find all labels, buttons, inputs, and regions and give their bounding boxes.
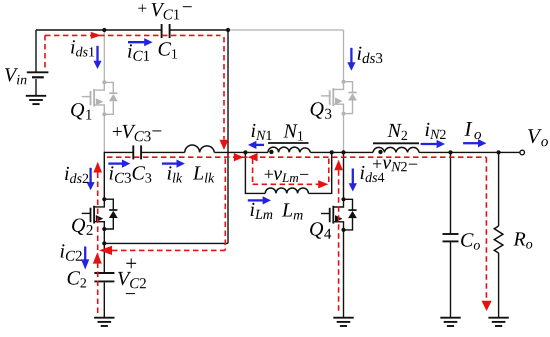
wire gray Q1 drain lead	[103, 30, 105, 82]
wire Q4 source to ground	[343, 230, 345, 318]
red dashed current path: Q4 column	[338, 170, 340, 311]
red dashed current path: Vin loop vertical	[44, 35, 46, 67]
red dashed current path: main row	[107, 156, 486, 158]
current arrow iN2	[421, 143, 437, 145]
label Llk	[193, 166, 215, 182]
label +vLm-	[265, 170, 273, 178]
current arrow ids4	[352, 169, 354, 184]
current arrow iLm	[248, 199, 263, 201]
capacitor C3	[133, 145, 141, 159]
inductor Lm branch	[245, 152, 265, 193]
red dashed current path: top horizontal	[45, 34, 221, 36]
transistor Q2	[82, 197, 118, 231]
label ilk	[168, 166, 183, 182]
label N1	[283, 124, 303, 140]
transistor Q3	[321, 80, 357, 116]
label Vin	[5, 68, 27, 84]
capacitor C1	[162, 24, 170, 38]
label N2	[387, 124, 407, 140]
node B (top junction C1 right)	[226, 28, 230, 32]
wire gray Q1 source lead	[103, 113, 105, 152]
red dashed current path: C1 down	[223, 37, 225, 140]
capacitor C2	[94, 273, 114, 281]
label +VC1-	[138, 4, 146, 12]
current arrow Io	[463, 142, 478, 144]
current arrow iC2	[84, 247, 86, 260]
wire Q2 source to C2	[103, 229, 105, 272]
ground (Q4)	[333, 318, 353, 326]
wire Vin top lead	[35, 30, 37, 72]
wire C1 branch down and across to Q2 source	[104, 30, 228, 243]
winding N1	[268, 147, 310, 152]
transistor Q1	[82, 80, 118, 116]
node Co top junction	[448, 150, 452, 154]
label Vo	[528, 129, 548, 146]
current arrow iC3	[108, 162, 122, 164]
red dashed current path: to Q2 source horizontal	[112, 249, 225, 251]
label Co	[461, 233, 480, 249]
label iLm	[251, 203, 273, 219]
wire Co branch	[450, 152, 452, 317]
current arrow ilk	[162, 162, 177, 164]
winding N1 core bar	[268, 142, 309, 144]
wire Q4 drain from junction	[343, 152, 345, 199]
winding N2 core bar	[373, 142, 419, 144]
node Q2 source wire junction	[102, 241, 106, 245]
label C2	[68, 271, 87, 287]
red arrow right into junction	[234, 153, 244, 161]
red arrow right (inner loop)	[318, 180, 328, 188]
red dashed current path: vLm inner loop	[253, 159, 329, 185]
label Q3	[311, 102, 332, 119]
label +vN2-	[373, 160, 381, 168]
label +VC3-	[113, 127, 122, 136]
capacitor Co	[443, 234, 459, 241]
current arrow ids1	[96, 46, 98, 62]
wire C2 to ground	[103, 282, 105, 317]
node Q4 top junction	[341, 150, 345, 154]
red dashed current path: left column	[97, 164, 99, 315]
current arrow ids2	[89, 168, 91, 183]
terminal Vo open circle	[520, 150, 525, 155]
current arrow iC1	[128, 41, 145, 43]
current arrow ids3	[350, 48, 352, 63]
red arrow up (left column)	[93, 162, 102, 173]
node Ro top junction	[497, 150, 501, 154]
red arrow up (Q4 column)	[334, 160, 343, 171]
node A (top junction Q1)	[102, 28, 106, 32]
wire left column Q2 drain	[103, 152, 105, 199]
wire main row bus	[104, 151, 519, 153]
red arrow left (Q2 source)	[99, 246, 112, 255]
wire gray top to Q3	[228, 30, 344, 82]
winding N2	[373, 147, 419, 152]
red arrow up (C2 branch)	[93, 252, 102, 263]
ground (Ro)	[488, 318, 508, 326]
label Q4	[310, 222, 331, 238]
wire top bus	[36, 29, 228, 31]
red arrow down (output)	[482, 301, 492, 311]
wire gray Q3 source lead	[343, 113, 345, 152]
ground (Vin)	[26, 96, 46, 104]
node transformer left junction	[243, 150, 247, 154]
wire Vin bottom lead	[35, 79, 37, 96]
node Lm right junction	[330, 150, 334, 154]
node N2 phase dot	[378, 150, 382, 154]
label Q2	[72, 219, 93, 235]
voltage source Vin	[27, 72, 49, 77]
label Ro	[513, 232, 532, 248]
label Lm	[282, 203, 303, 219]
red arrow down (above row)	[220, 140, 229, 150]
label C3	[133, 166, 152, 182]
label VC2	[118, 272, 146, 288]
transistor Q4	[321, 197, 357, 232]
red dashed current path: C1 lower vertical	[224, 159, 226, 251]
resistor Ro	[494, 226, 503, 253]
red arrow right (top)	[91, 32, 101, 39]
ground (C2)	[94, 318, 114, 326]
red arrow left into junction	[248, 153, 258, 161]
label C1	[159, 42, 177, 58]
label Q1	[71, 103, 91, 119]
current arrow iN1	[256, 144, 264, 146]
red dashed current path: output down	[485, 157, 487, 299]
wire Ro branch	[498, 152, 500, 317]
ground (Co)	[440, 318, 460, 326]
inductor Llk	[185, 145, 215, 152]
node N1 phase dot	[269, 150, 273, 154]
